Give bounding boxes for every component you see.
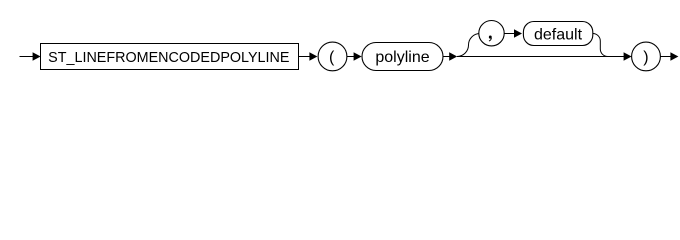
svg-text:default: default bbox=[534, 27, 583, 44]
wire ( to polyline bbox=[347, 56, 354, 58]
arrowhead into polyline bbox=[354, 52, 362, 61]
wire , to default bbox=[504, 33, 514, 35]
wire branch curve up bbox=[457, 34, 480, 57]
svg-text:polyline: polyline bbox=[375, 49, 429, 66]
svg-text:(: ( bbox=[329, 49, 335, 66]
arrowhead into default bbox=[514, 29, 522, 38]
wire branch curve down bbox=[593, 34, 608, 57]
terminal default bbox=[523, 22, 592, 46]
wire start bbox=[20, 56, 35, 58]
arrowhead into ( bbox=[309, 52, 317, 61]
comma glyph inside terminal , bbox=[489, 36, 492, 42]
arrowhead on main line at branch point bbox=[449, 52, 457, 61]
wire main skip line bbox=[457, 56, 624, 58]
svg-text:): ) bbox=[643, 49, 648, 66]
arrowhead end bbox=[670, 52, 678, 61]
wire box to ( bbox=[299, 56, 311, 58]
terminal ) bbox=[632, 42, 661, 71]
wire to end bbox=[660, 56, 672, 58]
arrowhead into ) bbox=[624, 52, 632, 61]
terminal polyline bbox=[362, 43, 443, 71]
wire after polyline bbox=[443, 56, 450, 58]
non-terminal box ST_LINEFROMENCODEDPOLYLINE bbox=[41, 44, 299, 70]
arrowhead into ST_LINEFROMENCODEDPOLYLINE box bbox=[33, 52, 41, 61]
svg-text:ST_LINEFROMENCODEDPOLYLINE: ST_LINEFROMENCODEDPOLYLINE bbox=[48, 50, 289, 66]
terminal , bbox=[479, 21, 504, 46]
terminal ( bbox=[318, 42, 347, 71]
